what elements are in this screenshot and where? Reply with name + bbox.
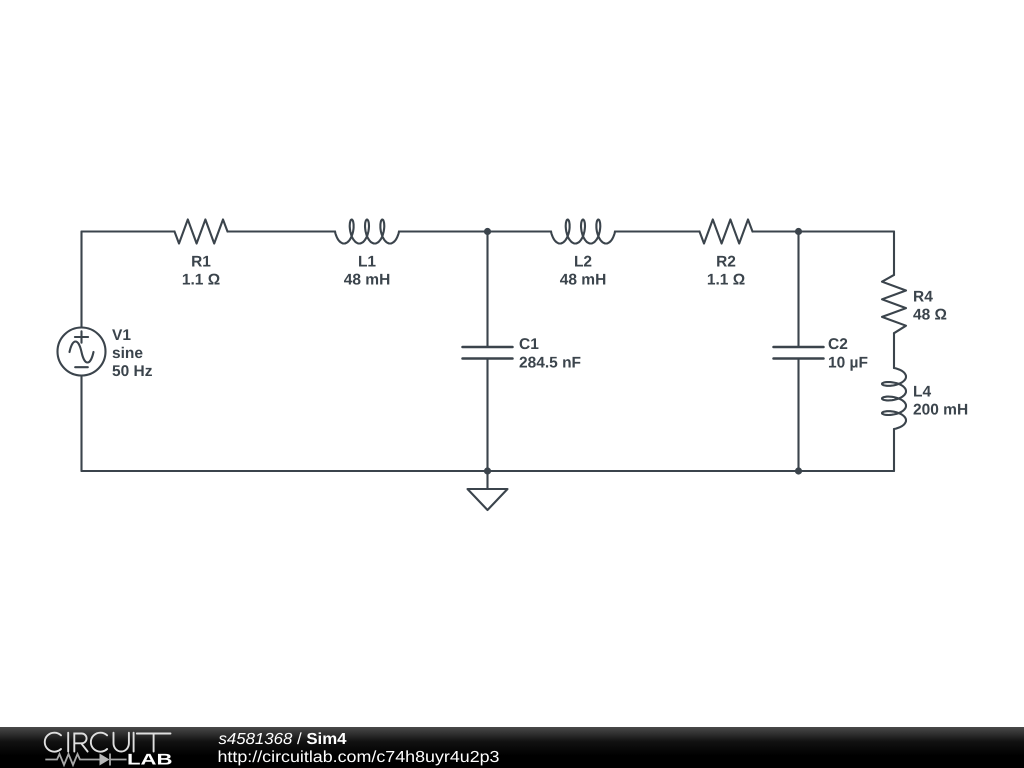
svg-text:s4581368 / Sim4: s4581368 / Sim4 <box>219 731 347 748</box>
label R1 value <box>182 254 220 289</box>
resistor R4 <box>882 275 906 333</box>
svg-text:1.1 Ω: 1.1 Ω <box>182 272 220 289</box>
wire left rail <box>80 232 82 472</box>
inductor L4 <box>882 368 906 429</box>
logo diode triangle <box>100 754 110 766</box>
inductor L1 <box>335 220 399 244</box>
footer bar <box>0 727 1024 768</box>
label L4 value <box>913 384 968 419</box>
label R2 value <box>707 254 745 289</box>
label C1 value <box>519 336 581 372</box>
svg-text:50 Hz: 50 Hz <box>112 363 153 380</box>
svg-text:V1: V1 <box>112 327 131 344</box>
svg-text:sine: sine <box>112 345 143 362</box>
label V1 value <box>112 327 153 380</box>
svg-text:C1: C1 <box>519 336 539 353</box>
capacitor C1 <box>463 347 513 359</box>
wire top rail <box>82 230 895 232</box>
inductor L2 <box>551 220 615 244</box>
svg-text:48 mH: 48 mH <box>344 272 391 289</box>
svg-text:L1: L1 <box>358 254 376 271</box>
ground <box>468 471 508 510</box>
svg-text:48 mH: 48 mH <box>560 272 607 289</box>
svg-text:L4: L4 <box>913 384 931 401</box>
wire C1 branch <box>486 232 488 472</box>
voltage source V1 <box>58 328 106 376</box>
svg-text:48 Ω: 48 Ω <box>913 307 947 324</box>
wire C2 branch <box>797 232 799 472</box>
logo CIRCUIT <box>45 733 171 752</box>
node D (C2 bottom junction) <box>795 467 802 474</box>
svg-text:1.1 Ω: 1.1 Ω <box>707 272 745 289</box>
label R4 value <box>913 289 947 324</box>
svg-text:http://circuitlab.com/c74h8uyr: http://circuitlab.com/c74h8uyr4u2p3 <box>218 749 500 766</box>
label L1 value <box>344 254 391 289</box>
resistor R2 <box>700 220 753 244</box>
label C2 value <box>828 336 868 372</box>
svg-text:R1: R1 <box>191 254 211 271</box>
svg-text:10 µF: 10 µF <box>828 355 868 372</box>
label L2 value <box>560 254 607 289</box>
node B (C2 top junction) <box>795 228 802 235</box>
svg-text:C2: C2 <box>828 336 848 353</box>
wire right branch <box>893 232 895 472</box>
svg-text:L2: L2 <box>574 254 592 271</box>
svg-text:284.5 nF: 284.5 nF <box>519 355 581 372</box>
svg-text:R4: R4 <box>913 289 933 306</box>
svg-text:200 mH: 200 mH <box>913 402 968 419</box>
capacitor C2 <box>774 347 824 359</box>
resistor R1 <box>175 220 228 244</box>
svg-text:LAB: LAB <box>127 752 173 768</box>
node C (C1 bottom junction) <box>484 467 491 474</box>
node A (C1 top junction) <box>484 228 491 235</box>
svg-text:R2: R2 <box>716 254 736 271</box>
logo resistor-diode symbol <box>45 754 126 766</box>
wire bottom rail <box>82 470 895 472</box>
